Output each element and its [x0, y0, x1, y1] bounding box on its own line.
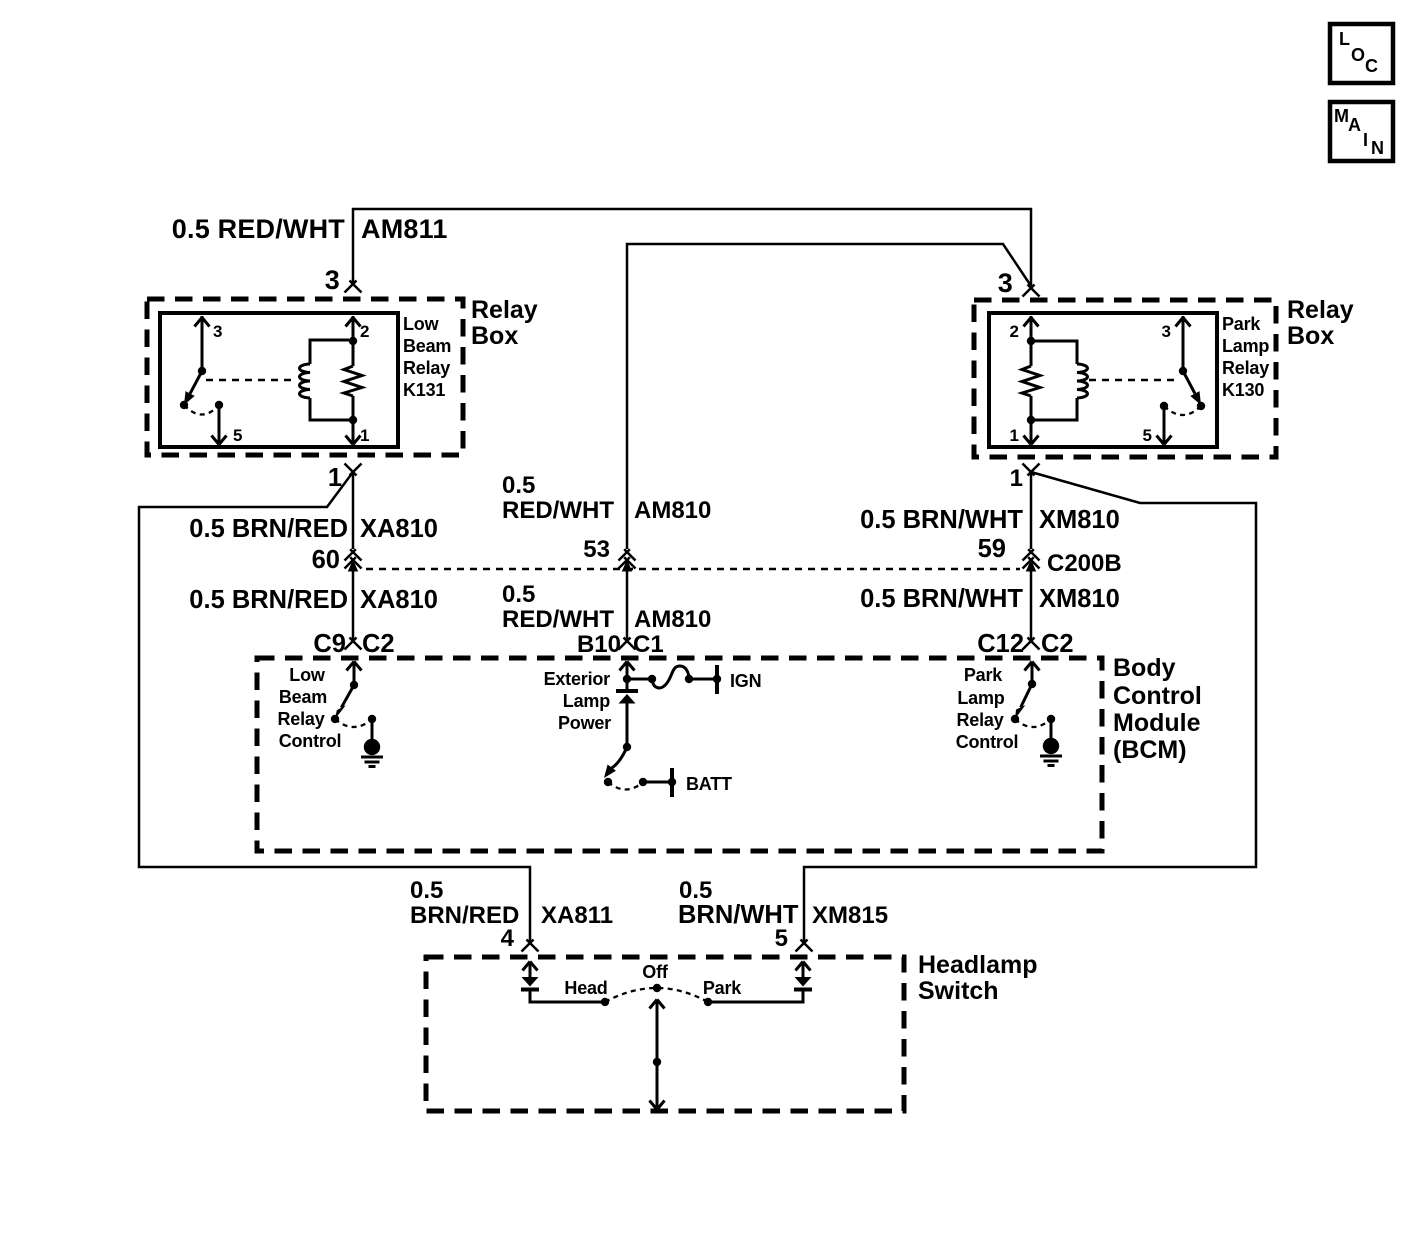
relay K130 resistor — [1022, 366, 1040, 396]
relay K131 switch pivot — [198, 367, 206, 375]
dashed connector line C200B — [366, 568, 1020, 571]
svg-text:Relay: Relay — [1287, 296, 1354, 324]
svg-text:K130: K130 — [1222, 380, 1264, 400]
svg-text:5: 5 — [1143, 426, 1152, 445]
BCM ground left — [371, 719, 374, 740]
wire AM810 upper — [627, 244, 1031, 549]
connector pin 5 headlamp switch — [796, 940, 813, 952]
svg-text:0.5: 0.5 — [502, 472, 535, 499]
svg-text:Low: Low — [289, 665, 326, 685]
svg-text:4: 4 — [501, 925, 515, 952]
svg-text:Park: Park — [1222, 314, 1261, 334]
svg-text:2: 2 — [1010, 322, 1019, 341]
svg-text:1: 1 — [1010, 426, 1019, 445]
relay K130 inner box — [989, 313, 1217, 447]
svg-text:5: 5 — [775, 925, 788, 952]
svg-text:C2: C2 — [362, 630, 395, 658]
head contact — [601, 998, 609, 1006]
svg-text:Lamp: Lamp — [1222, 336, 1269, 356]
svg-text:Park: Park — [964, 665, 1003, 685]
svg-text:3: 3 — [213, 322, 222, 341]
relay box K130 dashed outline — [974, 300, 1276, 457]
connector C12 C2 — [1023, 638, 1040, 650]
svg-text:N: N — [1371, 138, 1384, 158]
svg-text:L: L — [1339, 29, 1350, 49]
relay K131 resistor — [344, 366, 362, 396]
BCM ground right — [1050, 719, 1053, 739]
svg-text:0.5: 0.5 — [679, 877, 712, 904]
wire XA811 (relay pin1 to headlamp switch pin4) — [139, 472, 530, 943]
svg-text:Module: Module — [1113, 709, 1201, 737]
svg-text:M: M — [1334, 106, 1349, 126]
svg-text:5: 5 — [233, 426, 242, 445]
relay K130 pin 5 — [1160, 402, 1168, 410]
relay K130 junction dots — [1027, 337, 1035, 345]
svg-text:XM810: XM810 — [1039, 585, 1120, 613]
svg-text:I: I — [1363, 130, 1368, 150]
svg-text:C1: C1 — [633, 631, 664, 658]
relay K131 inner box — [160, 313, 398, 447]
relay K130 pin 3 — [1182, 316, 1185, 370]
wire AM811 top — [353, 209, 1031, 288]
relay K131 switch contact dot — [180, 401, 188, 409]
BCM battery switch — [623, 743, 631, 751]
svg-text:AM811: AM811 — [361, 214, 448, 244]
svg-text:K131: K131 — [403, 380, 445, 400]
relay K131 coil — [310, 340, 349, 420]
svg-text:0.5 BRN/WHT: 0.5 BRN/WHT — [860, 585, 1023, 613]
svg-text:0.5 BRN/RED: 0.5 BRN/RED — [189, 515, 348, 543]
svg-text:C9: C9 — [313, 630, 346, 658]
relay K130 switch pivot — [1179, 367, 1187, 375]
svg-text:C12: C12 — [977, 630, 1024, 658]
BCM low beam relay control switch — [347, 662, 362, 671]
svg-text:Relay: Relay — [277, 709, 324, 729]
BCM diode — [616, 689, 638, 693]
BCM IGN branch — [627, 678, 652, 681]
svg-text:RED/WHT: RED/WHT — [502, 606, 614, 633]
svg-text:Box: Box — [1287, 322, 1334, 350]
wire AM810 lower — [626, 572, 629, 642]
svg-text:Beam: Beam — [403, 336, 451, 356]
svg-text:0.5 BRN/RED: 0.5 BRN/RED — [189, 586, 348, 614]
headlamp switch pin 5 diode — [708, 991, 803, 1002]
svg-text:60: 60 — [312, 546, 340, 574]
relay K130 switch dashed arc — [1164, 406, 1201, 415]
svg-text:0.5: 0.5 — [410, 877, 443, 904]
relay K131 pin 5 — [215, 401, 223, 409]
BCM exterior lamp power node — [620, 662, 635, 671]
svg-text:Lamp: Lamp — [563, 691, 610, 711]
svg-text:XA811: XA811 — [541, 902, 613, 929]
headlamp switch pin 4 diode — [523, 962, 538, 971]
BCM park lamp relay control switch — [1025, 662, 1040, 671]
legend box LOC — [1330, 24, 1393, 83]
wire XM815 (relay pin1 to headlamp switch pin5) — [804, 472, 1256, 943]
svg-text:Head: Head — [564, 978, 607, 998]
relay K131 junction dots — [349, 337, 357, 345]
svg-text:Beam: Beam — [279, 687, 327, 707]
connector pin 4 headlamp switch — [522, 940, 539, 952]
connector pin 1 (relay K131) — [345, 464, 362, 476]
svg-text:3: 3 — [1162, 322, 1171, 341]
svg-text:Lamp: Lamp — [957, 688, 1004, 708]
svg-text:RED/WHT: RED/WHT — [502, 497, 614, 524]
svg-text:0.5 RED/WHT: 0.5 RED/WHT — [172, 214, 346, 244]
headlamp switch lever — [656, 1000, 659, 1111]
svg-text:Power: Power — [558, 713, 611, 733]
relay K131 switch blade — [190, 371, 202, 394]
connector B10 C1 — [619, 638, 636, 650]
svg-text:(BCM): (BCM) — [1113, 736, 1187, 764]
svg-text:Relay: Relay — [471, 296, 538, 324]
svg-text:C2: C2 — [1041, 630, 1074, 658]
svg-text:Body: Body — [1113, 654, 1176, 682]
relay K131 mechanical link dashed — [206, 379, 295, 382]
connector 60 C200B — [345, 549, 362, 571]
svg-text:AM810: AM810 — [634, 497, 711, 524]
connector pin 3 (relay K130) — [1023, 285, 1040, 297]
svg-text:Exterior: Exterior — [544, 669, 611, 689]
svg-text:53: 53 — [583, 536, 610, 563]
svg-text:Relay: Relay — [403, 358, 450, 378]
IGN terminal — [715, 665, 719, 694]
svg-text:XA810: XA810 — [360, 515, 438, 543]
svg-text:2: 2 — [360, 322, 369, 341]
svg-text:Park: Park — [703, 978, 742, 998]
BATT terminal — [670, 768, 674, 797]
svg-text:3: 3 — [998, 268, 1013, 298]
relay box K131 dashed outline — [147, 299, 463, 455]
svg-text:0.5 BRN/WHT: 0.5 BRN/WHT — [860, 506, 1023, 534]
connector 59 C200B — [1023, 549, 1040, 571]
svg-text:Switch: Switch — [918, 977, 999, 1005]
connector pin 1 (relay K130) — [1023, 464, 1040, 476]
svg-text:Control: Control — [279, 731, 342, 751]
wire XM810 — [1030, 474, 1033, 549]
wire XA810 — [352, 474, 355, 549]
svg-text:Relay: Relay — [956, 710, 1003, 730]
svg-text:Low: Low — [403, 314, 440, 334]
svg-text:XM810: XM810 — [1039, 506, 1120, 534]
connector 53 C200B — [619, 549, 636, 571]
svg-text:Box: Box — [471, 322, 518, 350]
svg-text:C200B: C200B — [1047, 550, 1122, 577]
svg-text:IGN: IGN — [730, 671, 761, 691]
svg-text:Relay: Relay — [1222, 358, 1269, 378]
relay K131 pin 3 — [201, 316, 204, 370]
svg-text:0.5: 0.5 — [502, 581, 535, 608]
svg-text:BATT: BATT — [686, 774, 732, 794]
relay K130 switch contact dot — [1197, 402, 1205, 410]
svg-text:Headlamp: Headlamp — [918, 951, 1037, 979]
svg-text:59: 59 — [978, 535, 1006, 563]
svg-text:A: A — [1348, 115, 1361, 135]
relay K130 coil — [1035, 341, 1077, 420]
svg-text:Control: Control — [1113, 682, 1202, 710]
relay K130 switch blade — [1183, 371, 1195, 394]
svg-text:1: 1 — [360, 426, 369, 445]
svg-text:XM815: XM815 — [812, 902, 888, 929]
svg-text:O: O — [1351, 45, 1365, 65]
connector pin 3 (relay K131) — [345, 281, 362, 293]
BCM dashed outline — [257, 658, 1102, 851]
svg-text:XA810: XA810 — [360, 586, 438, 614]
svg-text:B10: B10 — [577, 631, 621, 658]
headlamp switch dashed outline — [426, 957, 904, 1111]
svg-text:3: 3 — [325, 265, 340, 295]
svg-text:1: 1 — [1010, 465, 1023, 492]
relay K131 switch dashed arc — [184, 405, 219, 415]
connector C9 C2 — [345, 638, 362, 650]
legend box MAIN — [1330, 102, 1393, 161]
svg-text:Control: Control — [956, 732, 1019, 752]
svg-text:C: C — [1365, 56, 1378, 76]
svg-text:Off: Off — [642, 962, 669, 982]
park contact — [704, 998, 712, 1006]
headlamp switch dashed arc — [605, 988, 708, 1002]
relay K131 pin 2 with resistor — [352, 316, 355, 444]
svg-text:AM810: AM810 — [634, 606, 711, 633]
relay K130 pin 2 with resistor — [1030, 316, 1033, 444]
relay K130 mechanical link dashed — [1089, 379, 1176, 382]
